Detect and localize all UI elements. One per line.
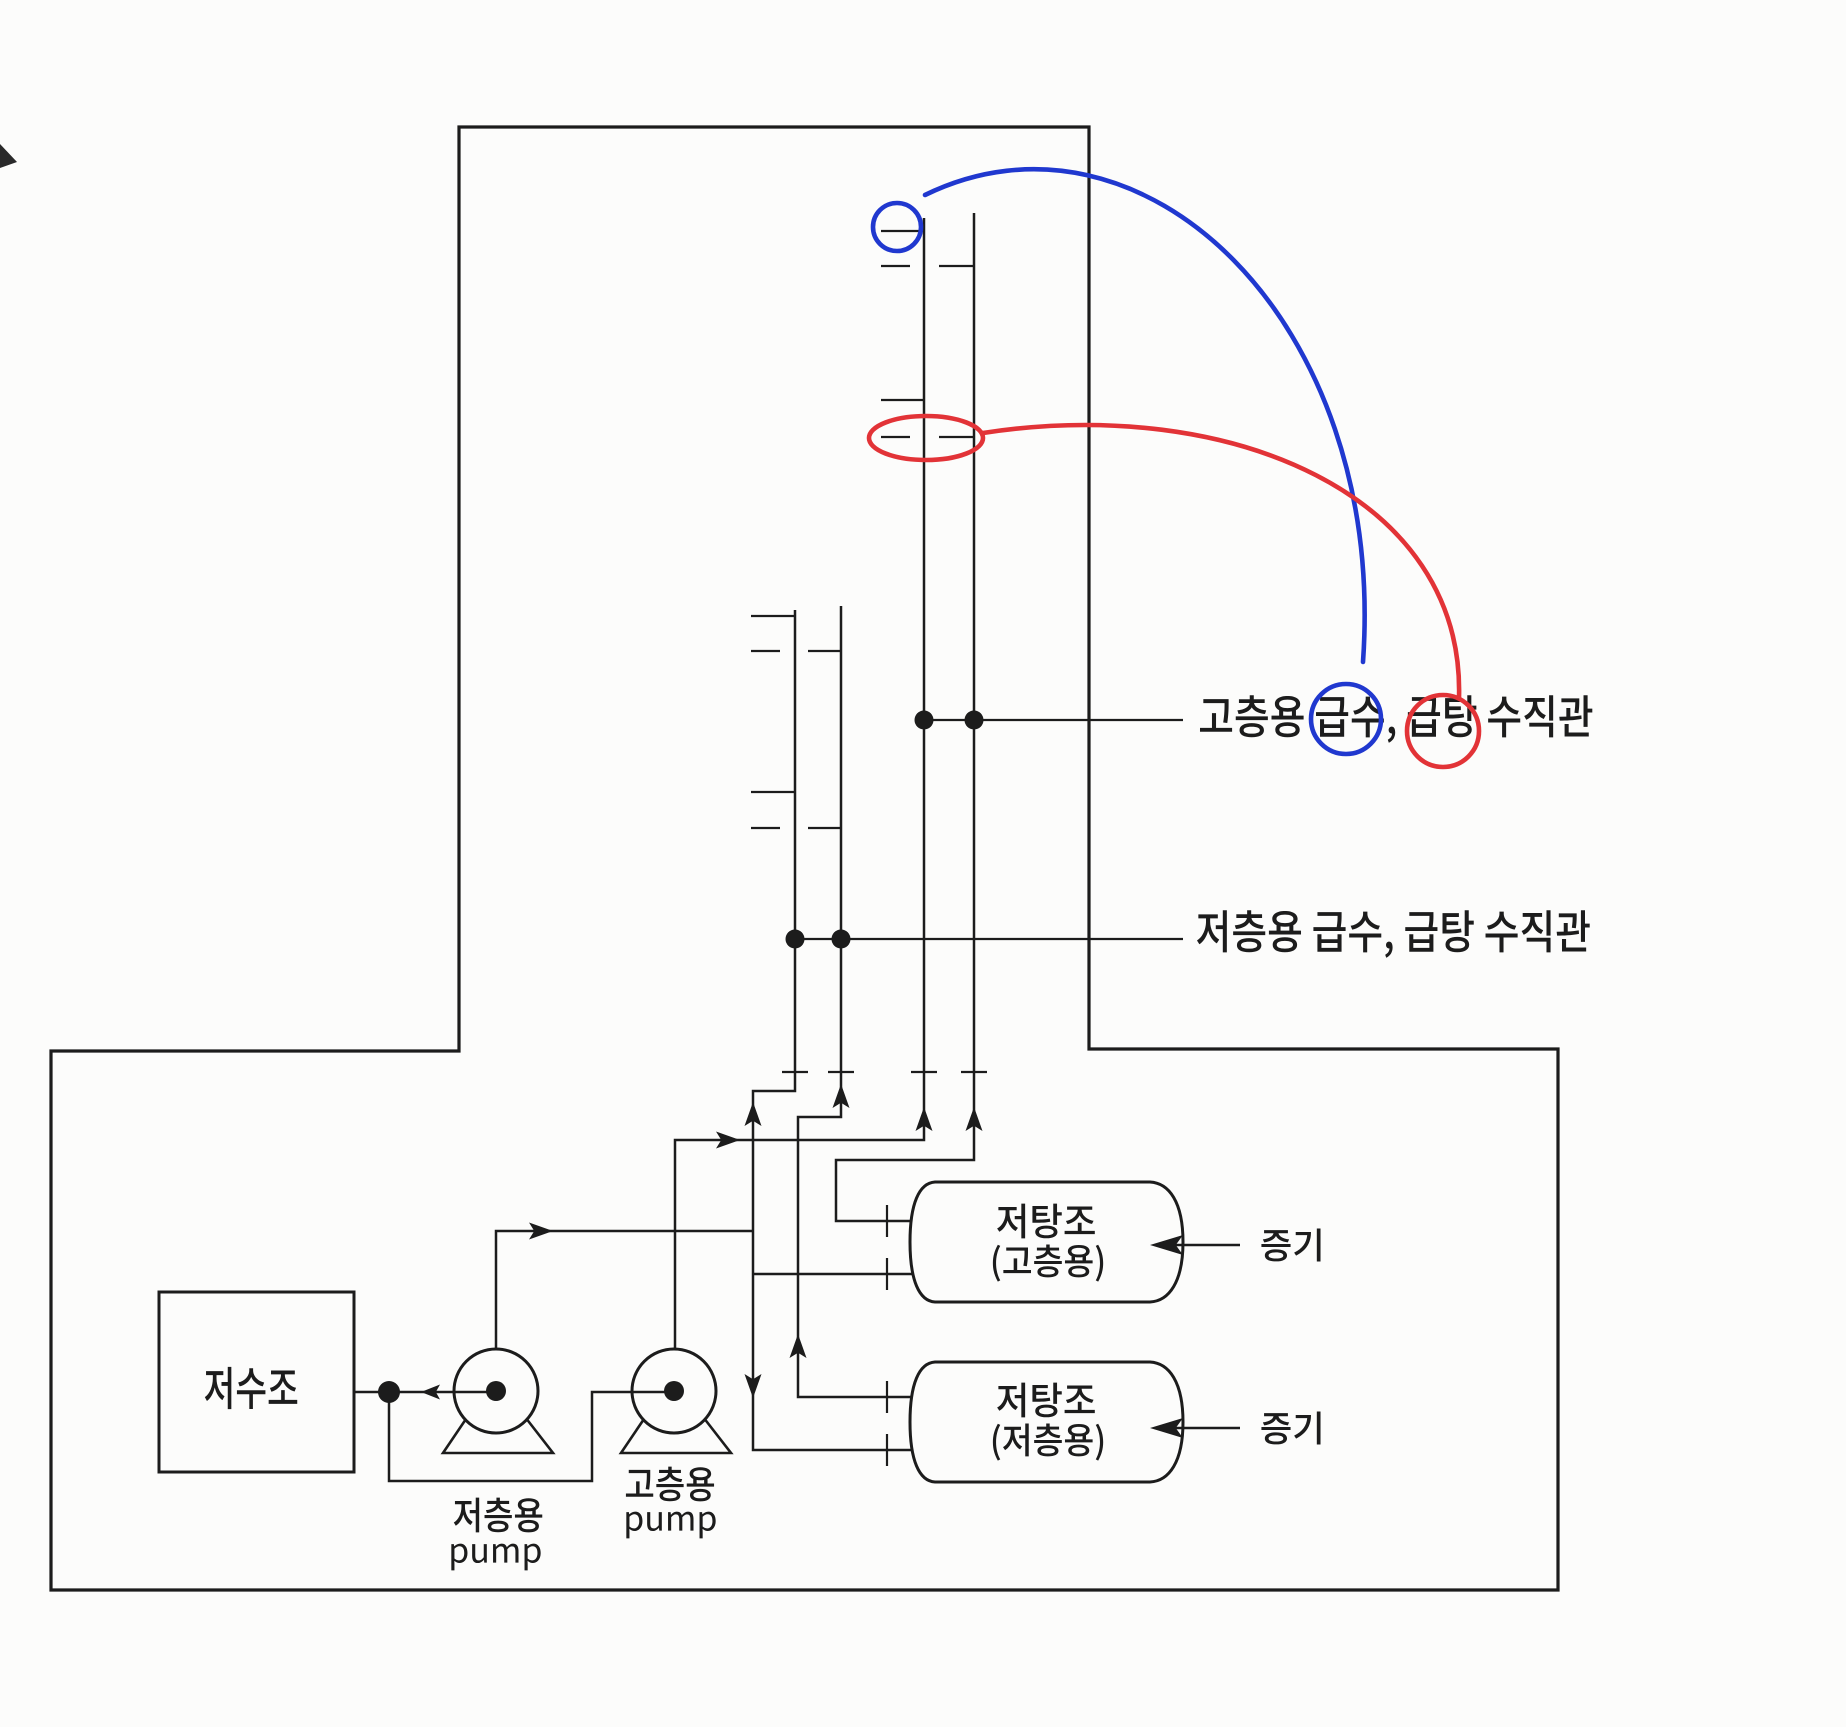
hot water storage tank 저탕조(고층용) — [910, 1182, 1183, 1302]
pump P1 (저층용 pump) casing — [454, 1349, 538, 1433]
text: pump — [626, 1512, 715, 1539]
text: 저층용 급수, 급탕 수직관 — [1197, 910, 1590, 957]
branch: top floor hot water tap, left segment — [881, 265, 910, 267]
pipe: reservoir to pump suction — [354, 1391, 456, 1394]
pump P2 (고층용 pump) suction line through casing — [631, 1391, 674, 1394]
pipe: low-rise pump discharge to cold riser — [496, 1231, 752, 1349]
branch: 2nd floor hot water tap, left segment — [881, 436, 910, 438]
tank nozzle tick — [886, 1205, 888, 1237]
branch: top floor cold water tap (blue-circled) — [881, 230, 924, 232]
node: low hot riser / leader — [832, 930, 851, 949]
text: 저탕조 — [997, 1383, 1095, 1418]
riser pipe: high-rise hot water (급탕) vertical — [836, 213, 974, 1221]
building outline wall — [51, 127, 1558, 1590]
steam arrow into high tank — [1150, 1235, 1183, 1255]
flow arrow on pump suction — [421, 1385, 440, 1400]
branch: low-rise lower floor hot tap, right segment — [808, 827, 841, 829]
leader line: high-rise riser label — [924, 719, 1183, 721]
branch: top floor hot water tap, right segment (red-circled) — [939, 265, 974, 267]
branch: low-rise upper floor hot tap, left segment — [751, 650, 780, 652]
annotation: blue circle around word 급수 — [1311, 684, 1381, 754]
node: high hot riser / leader — [965, 711, 984, 730]
text: 고층용 급수, 급탕 수직관 — [1200, 695, 1592, 742]
page corner printing artifact (triangle at left edge) — [0, 144, 17, 168]
pipe: high-rise storage tank cold feed — [753, 1273, 917, 1276]
pump P1 (저층용 pump) base — [443, 1413, 553, 1453]
text: 증기 — [1261, 1229, 1320, 1262]
flow arrow up on low tank hot outlet — [790, 1334, 807, 1358]
annotation: blue circle around top cold tap — [873, 203, 921, 251]
branch: low-rise lower floor cold tap — [751, 791, 795, 793]
text: (저층용) — [993, 1423, 1103, 1460]
pump P2 (고층용 pump) shaft dot — [664, 1381, 684, 1401]
flow arrow up on low hot riser — [833, 1084, 850, 1108]
annotation: blue curve from tap to word 급수 — [925, 169, 1365, 662]
text: 증기 — [1261, 1412, 1320, 1445]
hot water storage tank 저탕조(저층용) — [910, 1362, 1183, 1482]
branch: low-rise upper floor cold tap — [751, 615, 795, 617]
pipe: high-rise pump suction loop — [389, 1392, 634, 1481]
node: low cold riser / leader — [786, 930, 805, 949]
floor-slab tick on riser — [782, 1071, 808, 1073]
branch: low-rise upper floor hot tap, right segment — [808, 650, 841, 652]
text: pump — [451, 1544, 540, 1571]
text: 저탕조 — [997, 1204, 1095, 1239]
node: suction tee at reservoir — [378, 1381, 400, 1403]
flow arrow up on low cold feed — [745, 1102, 762, 1126]
reservoir tank (저수조) box — [159, 1292, 354, 1472]
text: (고층용) — [993, 1244, 1103, 1281]
text: 고층용 — [626, 1467, 714, 1502]
tank nozzle tick — [886, 1258, 888, 1290]
flow arrow up on high cold riser — [916, 1107, 933, 1131]
riser pipe: low-rise hot water (급탕) vertical — [798, 606, 917, 1397]
pump P2 (고층용 pump) base — [621, 1413, 731, 1453]
steam supply line to high tank — [1167, 1244, 1240, 1247]
flow arrow down to tank cold feeds — [745, 1374, 762, 1398]
text: 저수조 — [205, 1367, 297, 1409]
branch: low-rise lower floor hot tap, left segment — [751, 827, 780, 829]
flow arrow on high pump discharge — [716, 1132, 740, 1149]
floor-slab tick on riser — [961, 1071, 987, 1073]
leader line: low-rise riser label — [795, 938, 1183, 940]
tank nozzle tick — [886, 1381, 888, 1413]
annotation: red curve from tap to word 급탕 — [983, 425, 1459, 698]
pump P1 (저층용 pump) shaft dot — [486, 1381, 506, 1401]
riser pipe: low-rise cold water (급수) vertical — [753, 610, 917, 1450]
pump P2 (고층용 pump) casing — [632, 1349, 716, 1433]
tank nozzle tick — [886, 1434, 888, 1466]
annotation: red ellipse around 2nd floor hot tap — [869, 416, 983, 460]
text: 저층용 — [454, 1498, 542, 1533]
riser pipe: high-rise cold water (급수) vertical — [675, 218, 924, 1349]
branch: 2nd floor hot water tap, right segment — [939, 436, 974, 438]
pump P1 (저층용 pump) suction line through casing — [453, 1391, 496, 1394]
node: high cold riser / leader — [915, 711, 934, 730]
branch: 2nd floor cold water tap — [881, 399, 924, 401]
steam supply line to low tank — [1167, 1427, 1240, 1430]
flow arrow on low pump discharge — [529, 1223, 553, 1240]
flow arrow up on high hot riser — [966, 1107, 983, 1131]
floor-slab tick on riser — [911, 1071, 937, 1073]
floor-slab tick on riser — [828, 1071, 854, 1073]
steam arrow into low tank — [1150, 1418, 1183, 1438]
annotation: red circle around word 급탕 — [1407, 695, 1479, 767]
